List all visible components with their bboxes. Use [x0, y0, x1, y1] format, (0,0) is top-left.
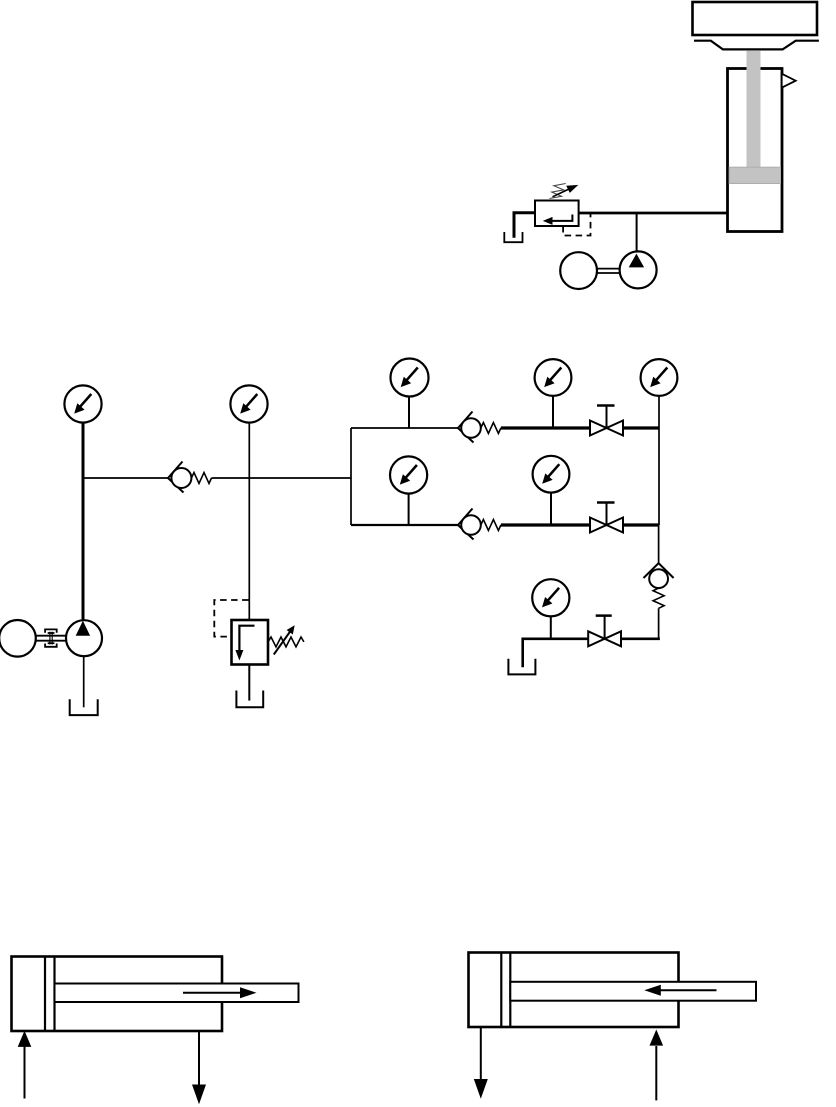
pressure reducing valve PRV body: [232, 620, 269, 665]
tank T3: [508, 659, 535, 675]
gauge G5: [641, 359, 678, 396]
RV1 flow arrow: [551, 215, 572, 221]
gauge G4: [535, 359, 572, 396]
wire: vertical pipe x83 gauge to pump: [82, 423, 85, 621]
wire: pump riser: [636, 213, 638, 252]
C2 rod arrow (extend, right): [183, 992, 242, 994]
wire: CV4 down to bottom row: [658, 608, 660, 640]
cylinder C2 (extending) body: [12, 957, 223, 1032]
coupling: [45, 629, 57, 646]
check valve CV4 (vertical): [644, 563, 674, 608]
valve V3 (shut-off): [588, 616, 621, 647]
piston rod (gray): [747, 50, 761, 168]
wire: row1 right to corner: [623, 426, 659, 429]
C3 piston: [500, 953, 502, 1028]
PRV pilot dashed line: [214, 600, 248, 637]
vent triangle on cylinder: [782, 74, 796, 88]
wire: main line y478 right of CV1: [212, 477, 352, 479]
motor M2 circle: [0, 620, 36, 657]
valve V1 (shut-off): [590, 406, 623, 436]
wire: pipe cylinder to relief valve: [579, 212, 729, 215]
RV1 pilot dashed line: [563, 213, 590, 236]
tank T4: [70, 699, 98, 715]
tank T1: [504, 232, 522, 242]
check valve CV2: [458, 412, 501, 443]
shaft M1-P1: [597, 268, 620, 270]
cylinder C3 (retracting) body: [469, 953, 679, 1028]
pump P2 circle: [66, 620, 102, 656]
C3 rod: [510, 982, 756, 1001]
press frame (funnel under platen): [694, 41, 819, 50]
RV1 adjustable spring: [550, 184, 566, 199]
wire: connector x351 rows 1-2: [350, 428, 352, 525]
wire: G2 stem and drop to PRV: [248, 423, 250, 620]
wire: G7 stem: [550, 493, 552, 525]
wire: G4 stem: [552, 396, 554, 428]
wire: row2 thick segment: [501, 523, 590, 526]
wire: RV1 left pipe to tank: [514, 213, 535, 238]
C3 rod arrow (retract, left): [659, 989, 717, 991]
wire: G3 stem: [408, 397, 410, 429]
wire: PRV to tank: [248, 665, 250, 701]
wire: row2 right to corner: [623, 523, 659, 526]
gauge G1: [64, 385, 101, 422]
C3 exhaust arrow (down, cap end): [480, 1027, 482, 1080]
press platen: [693, 2, 818, 35]
check valve CV3: [458, 509, 501, 540]
gauge G7: [533, 456, 570, 493]
wire: main line y478 left of CV1: [83, 477, 168, 479]
relief valve RV1 body: [535, 201, 579, 227]
PRV adjustable spring: [268, 625, 304, 654]
wire: bottom row left corner to tank: [523, 639, 524, 667]
wire: P2 to tank T4: [83, 656, 85, 707]
C2 rod: [55, 984, 299, 1003]
C3 supply arrow (up, rod end): [655, 1046, 657, 1100]
gauge G6: [390, 456, 427, 493]
wire: row1 thick segment: [501, 426, 590, 429]
C2 supply arrow (up, cap end): [24, 1044, 26, 1099]
wire: right vertical row2 down to CV4: [658, 525, 660, 563]
valve V2 (shut-off): [590, 503, 623, 533]
wire: G6 stem: [408, 494, 410, 525]
wire: G8 stem: [550, 616, 552, 638]
C2 exhaust arrow (down, rod end): [198, 1031, 200, 1086]
wire: bottom row line: [523, 637, 588, 640]
gauge G2: [230, 385, 267, 422]
PRV flow arrow: [239, 626, 254, 651]
P1 flow triangle: [629, 254, 644, 268]
shaft M2-P2: [36, 635, 66, 637]
check valve CV1: [168, 462, 212, 493]
C2 piston: [44, 957, 46, 1032]
P2 flow triangle: [76, 621, 90, 636]
pump P1 circle: [620, 251, 657, 288]
wire: row2 left segment: [351, 524, 458, 526]
wire: row1 left segment: [351, 427, 458, 429]
gauge G3: [391, 359, 429, 397]
gauge G8: [532, 579, 569, 616]
tank T2: [236, 691, 263, 708]
wire: G5 stem / right vertical rows 1-2: [658, 396, 660, 525]
motor M1 circle: [560, 252, 597, 289]
piston (gray): [729, 167, 780, 183]
cylinder C1 (press cylinder): [728, 69, 783, 232]
